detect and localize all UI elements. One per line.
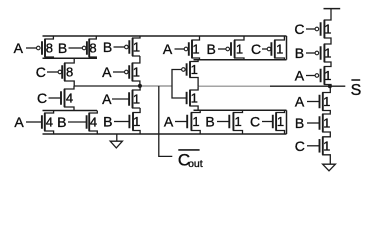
svg-text:1: 1 <box>277 114 284 129</box>
svg-text:C: C <box>251 41 261 57</box>
svg-text:C: C <box>37 90 47 106</box>
svg-text:1: 1 <box>133 92 140 107</box>
svg-text:C: C <box>250 114 260 130</box>
svg-text:A: A <box>14 114 24 130</box>
svg-text:1: 1 <box>324 22 331 37</box>
svg-text:A: A <box>102 64 112 80</box>
svg-text:1: 1 <box>133 65 140 80</box>
svg-text:B: B <box>207 41 216 57</box>
svg-text:8: 8 <box>66 65 73 80</box>
svg-text:C: C <box>36 64 46 80</box>
svg-text:1: 1 <box>323 116 330 131</box>
svg-text:1: 1 <box>133 114 140 129</box>
svg-text:S: S <box>351 82 362 99</box>
svg-text:4: 4 <box>46 115 53 130</box>
svg-text:1: 1 <box>323 94 330 109</box>
svg-text:1: 1 <box>324 68 331 83</box>
svg-text:8: 8 <box>89 41 96 56</box>
svg-text:1: 1 <box>236 42 243 57</box>
svg-text:A: A <box>102 91 112 107</box>
svg-text:B: B <box>103 39 112 55</box>
svg-text:B: B <box>205 114 214 130</box>
svg-text:B: B <box>295 45 304 61</box>
svg-text:8: 8 <box>46 41 53 56</box>
svg-text:out: out <box>188 158 203 170</box>
svg-text:1: 1 <box>276 42 283 57</box>
svg-text:A: A <box>295 94 305 110</box>
svg-text:1: 1 <box>133 40 140 55</box>
svg-text:1: 1 <box>324 46 331 61</box>
svg-text:1: 1 <box>191 91 198 106</box>
svg-text:1: 1 <box>191 62 198 77</box>
svg-text:A: A <box>295 68 305 84</box>
svg-text:B: B <box>58 40 67 56</box>
svg-text:1: 1 <box>323 138 330 153</box>
svg-text:A: A <box>164 114 174 130</box>
svg-text:B: B <box>57 114 66 130</box>
svg-text:1: 1 <box>192 42 199 57</box>
svg-text:1: 1 <box>192 114 199 129</box>
svg-text:4: 4 <box>66 91 73 106</box>
svg-text:A: A <box>163 41 173 57</box>
svg-text:1: 1 <box>235 114 242 129</box>
svg-text:C: C <box>295 138 305 154</box>
svg-text:B: B <box>103 114 112 130</box>
svg-text:B: B <box>295 115 304 131</box>
svg-text:4: 4 <box>90 115 97 130</box>
svg-text:A: A <box>14 40 24 56</box>
svg-text:C: C <box>294 21 304 37</box>
